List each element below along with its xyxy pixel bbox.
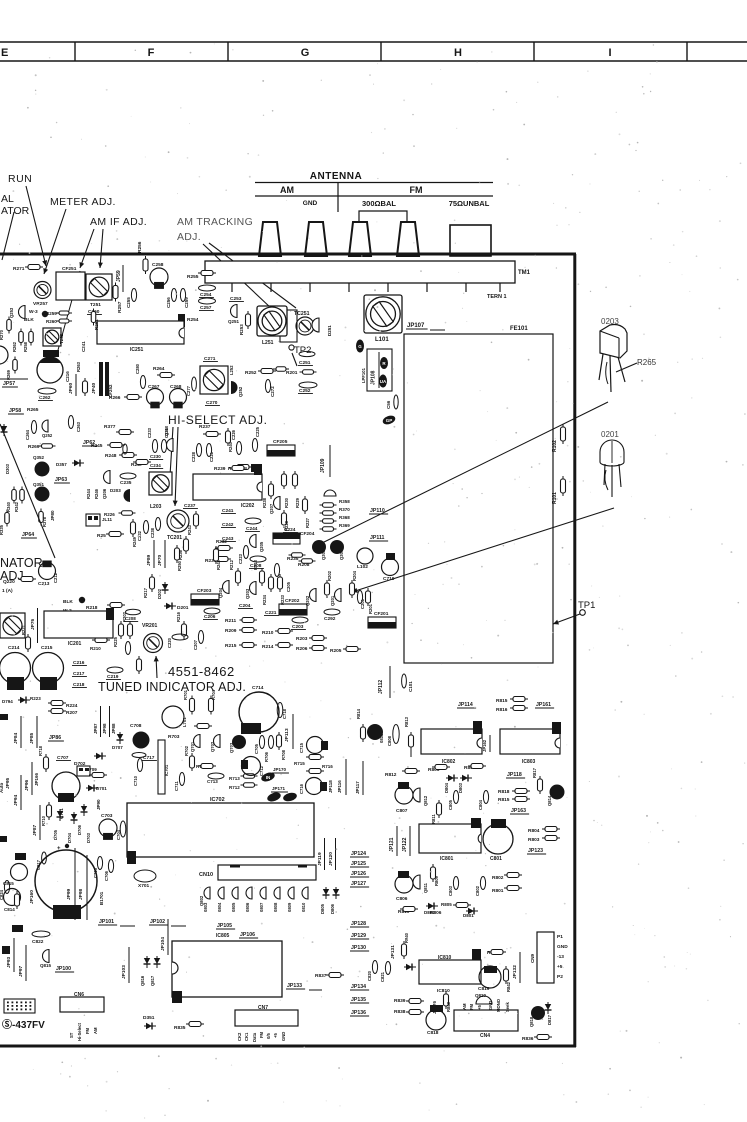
jumper JP87 [32, 824, 38, 836]
transistor Q703 black [232, 735, 246, 749]
svg-text:R811: R811 [431, 814, 436, 824]
label D703 [86, 832, 91, 843]
svg-text:C819: C819 [478, 986, 490, 992]
svg-text:C818: C818 [427, 1030, 439, 1036]
svg-text:R270: R270 [0, 329, 4, 340]
svg-text:JP120: JP120 [328, 852, 334, 866]
label Q307 [339, 549, 344, 560]
svg-text:JP96: JP96 [24, 779, 30, 791]
capacitor C244 [245, 518, 261, 524]
jumper JP87c [93, 723, 98, 734]
svg-text:IC201: IC201 [68, 641, 82, 647]
capacitor C804 [483, 791, 488, 804]
svg-text:C710: C710 [133, 775, 138, 786]
capacitor C814 [4, 889, 21, 906]
transistor Q818 black [531, 1006, 545, 1020]
svg-text:R210: R210 [262, 630, 274, 636]
capacitor C225 [252, 439, 257, 452]
jumper JP113 [284, 728, 290, 742]
label C56 [386, 400, 391, 409]
svg-text:L251: L251 [262, 340, 274, 346]
trimmer T251 [86, 274, 112, 300]
resistor R814 [361, 724, 366, 742]
svg-text:JP136: JP136 [351, 1010, 366, 1016]
label D251 [327, 325, 332, 336]
capacitor C710 [137, 759, 142, 772]
svg-text:Q220: Q220 [3, 579, 15, 585]
svg-text:75ΩUNBAL: 75ΩUNBAL [449, 199, 490, 208]
svg-text:JP93: JP93 [6, 956, 12, 968]
svg-text:R102: R102 [552, 440, 558, 452]
svg-text:R235: R235 [287, 556, 299, 562]
svg-text:Q306: Q306 [321, 549, 326, 560]
svg-text:CF204: CF204 [300, 531, 315, 537]
junction dot W-2 [79, 597, 85, 603]
resistor R811 [437, 800, 442, 818]
svg-text:GND: GND [281, 1032, 286, 1041]
svg-text:JP107: JP107 [407, 323, 425, 329]
svg-text:R203: R203 [296, 636, 308, 642]
capacitor C715 [307, 737, 324, 754]
jumper JP132 [512, 965, 518, 979]
jumper JP93 [6, 956, 12, 968]
diode D817 [545, 1002, 552, 1014]
black mark IC801 [471, 818, 481, 828]
jumper JP163 [510, 808, 529, 814]
label Q205 [259, 541, 264, 552]
svg-text:C235: C235 [120, 480, 132, 486]
svg-text:JP99: JP99 [66, 888, 72, 900]
capacitor C264 [31, 421, 36, 434]
svg-text:IC810: IC810 [437, 988, 450, 994]
svg-text:C263: C263 [76, 421, 81, 432]
svg-text:R229: R229 [295, 497, 300, 508]
svg-text:BLK: BLK [24, 317, 34, 323]
svg-text:AM: AM [280, 185, 294, 195]
capacitor C236 [161, 440, 166, 453]
capacitor C201 [357, 591, 362, 604]
svg-text:C213: C213 [38, 581, 50, 587]
IC IC201 [44, 611, 113, 638]
capacitor C268 [170, 389, 187, 406]
svg-text:R814: R814 [356, 708, 361, 719]
diode D202 [162, 582, 169, 594]
diode D806r [246, 887, 252, 899]
svg-text:JP97: JP97 [18, 965, 24, 977]
resistor R378 [39, 509, 44, 526]
capacitor C249 [123, 444, 127, 454]
svg-text:NATOR: NATOR [0, 556, 43, 570]
svg-text:R259: R259 [46, 311, 57, 316]
svg-text:C808: C808 [387, 735, 392, 746]
jumper JP135 [350, 997, 369, 1003]
coil L251 [257, 306, 287, 336]
svg-text:C822: C822 [32, 939, 44, 945]
svg-text:R236: R236 [178, 549, 183, 560]
jumper JP125 [350, 861, 369, 867]
svg-text:AM: AM [93, 1027, 98, 1034]
capacitor C255 [131, 289, 136, 302]
indicator R oval [380, 357, 388, 369]
capacitor C806 [398, 871, 409, 878]
label Q206 [102, 488, 107, 499]
antenna lug FM bal 1 [349, 222, 371, 256]
svg-text:CK1: CK1 [244, 1032, 249, 1041]
svg-text:GP: GP [386, 418, 393, 423]
resistor R232 [215, 546, 233, 551]
svg-text:Q252: Q252 [42, 433, 53, 438]
svg-text:R843: R843 [446, 1001, 451, 1012]
svg-text:JP118: JP118 [507, 772, 522, 778]
svg-text:CN4: CN4 [480, 1033, 490, 1039]
svg-text:GND: GND [557, 944, 568, 950]
jumper JP127 [350, 881, 369, 887]
svg-text:R839: R839 [394, 998, 406, 1004]
svg-text:JP130: JP130 [351, 945, 366, 951]
capacitor C233 [152, 440, 157, 453]
capacitor C706 [268, 736, 273, 749]
capacitor C821 [385, 962, 390, 975]
svg-text:LPF101: LPF101 [361, 367, 366, 383]
svg-text:Q205: Q205 [259, 541, 264, 552]
svg-text:R713: R713 [229, 776, 240, 781]
label AM v [462, 1003, 467, 1010]
svg-text:C277: C277 [186, 385, 191, 396]
diode D706 [81, 804, 88, 816]
jumper JP130 [350, 945, 369, 951]
svg-text:G: G [358, 344, 362, 349]
jumper JP102 [149, 919, 168, 925]
jumper JP89 [146, 554, 152, 566]
transistor Q307 black [330, 540, 344, 554]
indicator oval 2 [266, 791, 282, 803]
test point TP1 circle [580, 610, 586, 616]
resistor R704 [209, 696, 214, 715]
diode D804r [218, 887, 224, 899]
svg-text:JP59: JP59 [116, 270, 122, 282]
capacitor C206 [204, 608, 220, 614]
capacitor C820 [372, 961, 377, 974]
capacitor C713 [208, 773, 224, 779]
svg-text:R223: R223 [30, 696, 41, 701]
svg-text:IC701: IC701 [164, 764, 169, 776]
svg-text:R225: R225 [113, 636, 118, 647]
svg-text:R801: R801 [492, 888, 504, 894]
svg-text:R335: R335 [0, 524, 4, 535]
svg-text:R253: R253 [239, 324, 244, 335]
svg-text:FM: FM [469, 1003, 474, 1010]
vertical line JP98 [74, 848, 76, 920]
black mark IC802 [473, 721, 482, 734]
svg-text:I: I [608, 47, 611, 59]
svg-text:R703: R703 [168, 734, 180, 740]
label JP98 [78, 888, 84, 900]
black mark IC702 [127, 851, 136, 864]
svg-text:R240: R240 [228, 441, 233, 452]
svg-text:Q203: Q203 [245, 588, 250, 599]
capacitor C719 [386, 553, 395, 560]
board right edge [573, 254, 576, 1047]
capacitor C718 [277, 703, 283, 718]
svg-text:C255: C255 [126, 297, 131, 308]
capacitor C228 [196, 444, 201, 457]
svg-text:JP63: JP63 [55, 477, 67, 483]
antenna divider line 2 [255, 195, 493, 197]
svg-text:R837: R837 [315, 973, 327, 979]
indicator IN oval [260, 771, 276, 783]
svg-text:TERN 1: TERN 1 [487, 294, 507, 300]
jumper JP90 [96, 799, 101, 810]
svg-text:C715: C715 [299, 742, 304, 753]
jumper JP120 [328, 852, 334, 866]
black mark IC805 [172, 991, 182, 1003]
small connector block [77, 766, 90, 776]
capacitor C258 [150, 268, 168, 286]
IC IC702 [127, 803, 314, 857]
label Q818 [529, 1016, 534, 1027]
board bottom edge [0, 1045, 576, 1048]
pointer arrow AM IF ADJ to T251 [98, 229, 103, 268]
jumper JP111 [369, 535, 388, 541]
svg-text:R216: R216 [176, 611, 181, 622]
capacitor C252 [299, 382, 317, 388]
svg-text:JP171: JP171 [272, 786, 286, 791]
svg-text:JP170: JP170 [273, 767, 287, 772]
transistor Q352 black [35, 462, 50, 477]
svg-text:Q816: Q816 [140, 975, 145, 986]
svg-text:JP124: JP124 [351, 851, 366, 857]
jumper JP84 [13, 732, 19, 744]
jumper JP109 [320, 458, 326, 473]
resistor R102 [561, 424, 566, 444]
svg-text:R250: R250 [177, 560, 182, 571]
label +5 v [477, 1005, 482, 1010]
svg-text:IC251: IC251 [130, 347, 144, 353]
capacitor C256 [171, 289, 176, 302]
svg-text:Q253: Q253 [9, 307, 14, 318]
svg-text:0807: 0807 [259, 902, 264, 912]
resistor R250 [175, 545, 180, 563]
resistor R342 [20, 487, 25, 504]
svg-text:R836: R836 [522, 1036, 534, 1042]
svg-text:JP98: JP98 [78, 888, 84, 900]
svg-text:HI-SELECT ADJ.: HI-SELECT ADJ. [168, 413, 268, 427]
svg-text:R803: R803 [528, 837, 540, 843]
trimmer VR257 [34, 282, 51, 299]
capacitor C705b [97, 857, 102, 870]
transistor Q210 [164, 425, 169, 436]
svg-text:IC202: IC202 [241, 503, 255, 509]
label FM v [469, 1003, 474, 1010]
resistor R340 [12, 487, 17, 504]
indicator oval GND2 [282, 791, 298, 802]
IC IC803 [500, 729, 560, 754]
capacitor C204 [238, 603, 253, 609]
svg-text:D201: D201 [177, 605, 189, 611]
label C216 [65, 371, 70, 382]
label B1701 [99, 891, 104, 905]
svg-text:Q811: Q811 [423, 882, 428, 893]
jumper JP105 [216, 923, 235, 929]
svg-text:C234: C234 [150, 463, 161, 468]
svg-text:C259: C259 [184, 297, 189, 308]
svg-text:D303: D303 [5, 463, 10, 474]
svg-text:AL: AL [1, 193, 14, 205]
resistor R201 [366, 588, 371, 606]
resistor R712 [241, 783, 258, 788]
capacitor C280 [140, 376, 145, 389]
resistor R227 [303, 496, 308, 514]
label R253 [239, 324, 244, 335]
svg-text:JP76: JP76 [30, 618, 36, 630]
resistor R271 [25, 265, 43, 270]
resistor R202 [325, 580, 330, 598]
svg-text:AM TRACKING: AM TRACKING [177, 216, 253, 228]
svg-text:R716: R716 [322, 764, 333, 769]
svg-text:FM: FM [259, 1031, 264, 1038]
svg-text:R701: R701 [183, 689, 188, 700]
jumper JP133 [286, 983, 305, 989]
svg-text:0803: 0803 [203, 902, 208, 912]
transistor Q820 [476, 996, 492, 1004]
svg-text:L701: L701 [182, 717, 187, 727]
svg-text:JP95: JP95 [5, 777, 11, 789]
capacitor C822 [32, 931, 50, 937]
label R244 [86, 488, 91, 499]
pointer TP2 [292, 353, 297, 366]
svg-text:0805: 0805 [231, 902, 236, 912]
svg-text:JP114: JP114 [458, 702, 473, 708]
svg-text:JP129: JP129 [351, 933, 366, 939]
svg-text:0809: 0809 [287, 902, 292, 912]
capacitor C209 [125, 642, 130, 655]
black mark IC810 [472, 949, 481, 960]
capacitor C234 [149, 463, 163, 469]
filter CF252 stripe2 [105, 362, 109, 396]
svg-text:+5: +5 [273, 1033, 278, 1038]
resistor R263 [83, 378, 88, 396]
svg-text:Q817: Q817 [150, 975, 155, 986]
resistor R217 [150, 574, 155, 592]
jumper JP85 [29, 732, 35, 744]
svg-text:R254: R254 [187, 317, 199, 323]
IC IC810 [419, 960, 481, 984]
svg-text:Q252: Q252 [238, 386, 243, 397]
pointer line AM IF ADJ extension [58, 271, 80, 350]
svg-text:C214: C214 [8, 645, 20, 651]
svg-text:C258: C258 [152, 262, 164, 268]
resistor R233 [278, 574, 283, 592]
capacitor C213 [39, 563, 56, 580]
diode D804 [446, 775, 458, 782]
capacitor C270 [205, 400, 220, 406]
svg-text:JP70: JP70 [157, 554, 163, 566]
svg-text:D251: D251 [327, 325, 332, 336]
svg-text:R207: R207 [66, 710, 78, 716]
svg-text:D357: D357 [56, 462, 67, 467]
svg-text:R218: R218 [86, 605, 98, 611]
svg-text:T251: T251 [90, 302, 101, 308]
capacitor C817 [42, 852, 47, 864]
svg-text:R234: R234 [262, 594, 267, 605]
svg-text:D801: D801 [463, 913, 474, 918]
svg-text:Q702: Q702 [210, 741, 215, 752]
trimmer VR201 [144, 634, 163, 653]
svg-text:TP2: TP2 [294, 345, 311, 356]
resistor R262 [19, 329, 24, 346]
jumper JP119 [317, 852, 323, 866]
svg-text:R238: R238 [262, 497, 267, 508]
capacitor C223 [243, 546, 248, 559]
resistor R253 [246, 311, 251, 329]
label L252 [229, 365, 234, 375]
black mark R254 [178, 314, 185, 327]
diode D303 [1, 424, 8, 436]
svg-text:C226: C226 [231, 429, 236, 440]
svg-text:B1701: B1701 [99, 891, 104, 905]
jumper JP95 [5, 777, 11, 789]
svg-text:AM: AM [462, 1003, 467, 1010]
svg-text:R805: R805 [441, 902, 452, 907]
resistor R240 [226, 428, 231, 446]
svg-text:C292: C292 [324, 616, 336, 622]
svg-text:CN9: CN9 [530, 954, 535, 963]
coil L701 [162, 706, 184, 728]
svg-text:Q703: Q703 [229, 742, 234, 753]
resistor R-bl [15, 891, 20, 909]
svg-text:0/5: 0/5 [266, 1033, 271, 1039]
resistor R817 [538, 776, 543, 794]
jumper JP40 [91, 382, 97, 394]
svg-text:C233: C233 [147, 427, 152, 438]
label Q306 [321, 549, 326, 560]
svg-text:JP126: JP126 [351, 871, 366, 877]
jumper JP98c [102, 723, 107, 734]
svg-text:Q820: Q820 [475, 993, 487, 998]
antenna divider line 1 [255, 182, 493, 184]
trimmer T252 [43, 328, 61, 346]
jumper JP70 [157, 554, 163, 566]
jumper JP171 [271, 786, 288, 792]
resistor R843 [444, 991, 449, 1009]
capacitor C701 [52, 772, 80, 800]
svg-text:C801: C801 [490, 856, 502, 862]
svg-text:R370: R370 [339, 507, 350, 512]
svg-text:C705: C705 [93, 867, 98, 878]
capacitor C712 [242, 757, 261, 776]
svg-text:R806: R806 [430, 910, 442, 916]
indicator UA oval [379, 375, 387, 388]
svg-text:R261: R261 [94, 319, 99, 330]
svg-text:0813: 0813 [379, 733, 384, 743]
svg-text:R265: R265 [637, 358, 657, 367]
transistor D203 dark [124, 489, 131, 502]
resistor R234 [269, 574, 274, 592]
svg-text:JP103: JP103 [121, 965, 127, 979]
svg-text:ATOR: ATOR [1, 205, 30, 217]
svg-text:TC201: TC201 [167, 535, 182, 541]
diode D803r [204, 887, 210, 899]
partial circle at left edge [0, 346, 8, 364]
terminal strip pins [232, 283, 500, 292]
svg-text:C212: C212 [53, 572, 58, 583]
svg-text:R269: R269 [28, 444, 40, 450]
svg-text:JP58: JP58 [9, 408, 21, 414]
IC IC701 [158, 740, 165, 794]
pointer TP1 to board [553, 614, 580, 625]
transistor Q813 black [367, 724, 383, 740]
svg-text:R266: R266 [109, 395, 121, 401]
